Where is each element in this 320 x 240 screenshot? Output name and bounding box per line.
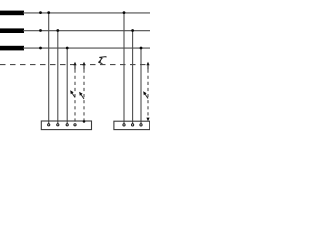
wire: left drop from bus C <box>66 48 68 124</box>
wire: left drop from bus B <box>57 31 59 124</box>
terminal 1.4 <box>74 124 76 126</box>
arrow up on dashed lead 2 <box>82 62 85 65</box>
busbar B (thick) <box>0 28 24 33</box>
arrow on lead 2 <box>81 94 85 99</box>
terminal box 2 (right) <box>114 121 150 129</box>
terminal 1.3 <box>66 124 68 126</box>
terminal 2.2 <box>132 124 134 126</box>
junction bus A / right drop <box>123 11 126 14</box>
dashed lead 3 (to meter) <box>147 70 149 118</box>
wire: right drop from bus B <box>132 31 134 124</box>
dashed lead 1 (to meter) <box>74 70 76 122</box>
junction bus A / left drop <box>47 11 50 14</box>
dashed boundary line (horizontal) <box>0 64 150 66</box>
arrow up on dashed lead 1 <box>73 62 76 65</box>
bus B wire <box>23 30 150 32</box>
label T (italic zig symbol) <box>99 56 107 63</box>
junction bus C / right drop <box>140 47 143 50</box>
arrow up on dashed lead 3 <box>146 62 149 65</box>
dashed lead 2 (to meter) <box>83 70 85 121</box>
busbar C (thick) <box>0 46 24 51</box>
terminal 2.3 <box>140 124 142 126</box>
node on bus A <box>39 11 42 14</box>
wire: left drop from bus A <box>48 13 50 124</box>
wire: right drop from bus C <box>140 48 142 124</box>
arrow on lead 1 <box>72 92 76 97</box>
busbar A (thick) <box>0 11 24 16</box>
junction bus B / left drop <box>56 29 59 32</box>
junction bus B / right drop <box>131 29 134 32</box>
junction bus C / left drop <box>66 47 69 50</box>
bus C wire <box>23 47 150 49</box>
terminal 1.2 <box>57 124 59 126</box>
terminal box 1 (left) <box>41 121 91 130</box>
arrow on lead 3 <box>145 93 149 98</box>
bus A wire <box>23 12 150 14</box>
node on bus B <box>39 29 42 32</box>
wire: right drop from bus A <box>123 13 125 124</box>
terminal 2.1 <box>123 124 125 126</box>
node on bus C <box>39 47 42 50</box>
arrow down into terminal box 2 <box>146 118 149 122</box>
terminal 1.1 <box>48 124 50 126</box>
node on box 1 edge <box>83 120 86 123</box>
